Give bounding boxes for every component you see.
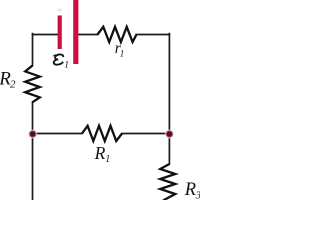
svg-text:3: 3 xyxy=(195,191,200,201)
svg-text:R: R xyxy=(184,180,196,200)
svg-text:1: 1 xyxy=(120,49,125,59)
svg-text:1: 1 xyxy=(64,61,69,71)
svg-text:1: 1 xyxy=(105,154,110,165)
svg-text:R: R xyxy=(94,143,106,163)
svg-text:2: 2 xyxy=(10,79,16,91)
